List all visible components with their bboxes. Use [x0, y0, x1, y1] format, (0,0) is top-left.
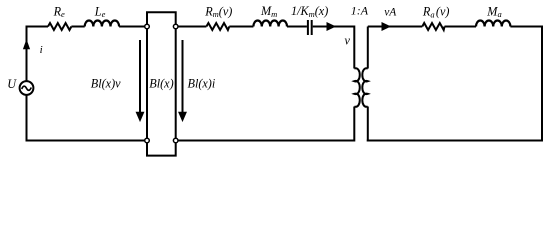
wire Ra to Ma: [445, 26, 477, 28]
transformer primary winding: [354, 68, 359, 106]
wire left-mesh top-left vertical: [27, 27, 49, 82]
svg-text:vA: vA: [384, 6, 397, 18]
resistor Rm(v): [206, 23, 229, 30]
wire primary to bottom, mech mesh bottom: [178, 107, 355, 141]
transformer secondary winding: [362, 68, 367, 106]
arrow current i: [24, 41, 30, 49]
svg-text:Bl(x): Bl(x): [149, 77, 173, 91]
wire acoustic-mesh top left: [368, 26, 423, 28]
wire capacitor to transformer, right side of mech mesh: [313, 27, 355, 69]
node terminal bottom-left: [145, 138, 150, 143]
transformer secondary winding top lead: [367, 27, 369, 69]
svg-text:v: v: [345, 33, 351, 47]
svg-text:U: U: [7, 77, 17, 91]
svg-text:Ra(v): Ra(v): [422, 5, 450, 20]
arrow Bl(x)i: [179, 40, 186, 121]
inductor Mm: [253, 21, 287, 27]
wire Re to Le: [71, 26, 84, 28]
transformer secondary bottom lead: [367, 107, 369, 142]
wire source to bottom: [26, 95, 28, 142]
block bottom bridge: [147, 143, 176, 156]
capacitor 1/Km(x): [308, 20, 312, 35]
node terminal bottom-right: [173, 138, 178, 143]
wire Le to block: [119, 26, 145, 28]
wire left-mesh bottom: [26, 140, 145, 142]
inductor Le: [85, 21, 119, 27]
voltage source U: [20, 81, 34, 95]
arrow Bl(x)v: [136, 40, 143, 121]
svg-text:1:A: 1:A: [351, 4, 369, 18]
block left rail: [146, 29, 148, 139]
wire Mm to capacitor: [287, 26, 307, 28]
sine symbol in source: [22, 86, 32, 90]
arrow volume velocity vA: [382, 23, 390, 30]
svg-text:Bl(x)v: Bl(x)v: [91, 77, 121, 91]
svg-text:Rm(v): Rm(v): [204, 4, 232, 19]
resistor Re: [48, 23, 71, 30]
resistor Ra(v): [422, 23, 444, 30]
node terminal top-left: [145, 24, 150, 29]
block top bridge: [147, 12, 176, 24]
arrow velocity v: [327, 23, 335, 30]
block right rail: [175, 29, 177, 139]
node terminal top-right: [173, 24, 178, 29]
svg-text:i: i: [40, 44, 43, 56]
inductor Ma: [476, 20, 510, 26]
wire block to Rm: [178, 26, 207, 28]
wire acoustic-mesh right and bottom: [367, 26, 543, 142]
wire Rm to Mm: [229, 26, 253, 28]
svg-text:Bl(x)i: Bl(x)i: [188, 77, 216, 91]
